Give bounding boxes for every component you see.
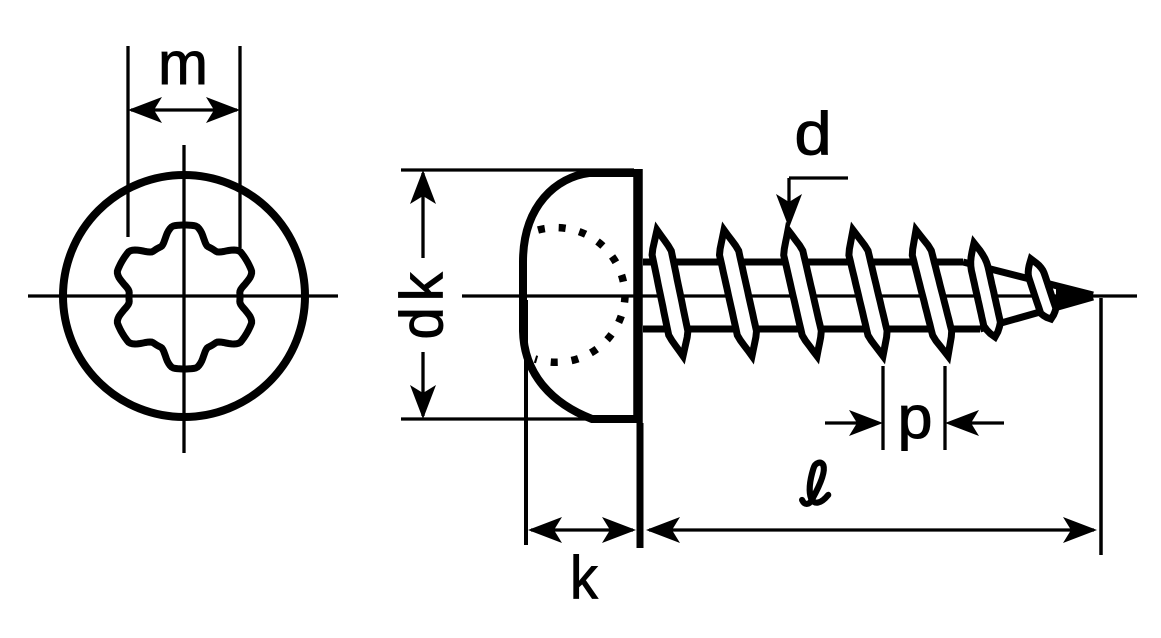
arrow m left [128,97,162,123]
extension line l right [1099,298,1103,555]
taper thread loop 1 [971,243,1001,337]
dimension line dk lower segment [421,352,424,416]
arrow l left [646,517,680,543]
head flat face [633,169,643,423]
svg-text:p: p [897,384,932,451]
label l (script ell) [802,463,828,504]
extension line p right [943,366,946,450]
wire: horizontal centerline of front view [28,294,338,297]
arrow dk down [410,385,436,419]
torx recess star [117,225,251,369]
dimension line dk upper segment [421,173,424,258]
arrow k right [602,517,636,543]
dimension tail p right [956,421,1004,424]
extension line m right [238,46,241,248]
dimension line l [649,528,1094,531]
taper top line [963,262,1093,295]
arrow m right [206,97,240,123]
wire: horizontal centerline of side view [462,294,1137,297]
dimension line k [531,528,633,531]
thread blade 2 [720,230,757,356]
extension line dk bottom [401,417,634,420]
arrow k left [528,517,562,543]
arrow dk up [410,170,436,204]
head side outline: pan head dome [523,173,638,419]
thread blade 4 [849,230,887,356]
wire: vertical centerline of front view [182,145,185,453]
dimension line m [131,108,237,111]
leader line d vertical [787,178,790,222]
arrow d down [776,194,802,228]
shank bottom line [643,326,980,333]
taper bottom line [980,297,1093,329]
arrow l right [1063,517,1097,543]
dimension tail p left [825,421,872,424]
arrow p left pointing right [849,410,883,436]
svg-text:d: d [794,100,831,167]
svg-text:dk: dk [387,266,455,339]
thread blade 1 [652,230,688,356]
arrow p right pointing left [945,410,979,436]
svg-text:m: m [158,30,208,97]
svg-text:k: k [570,545,599,611]
recess depth dashed arc [535,228,625,363]
extension line m left [126,46,129,237]
head outer circle [63,175,305,417]
extension line dk top [401,168,634,171]
extension line p left [881,366,884,450]
extension line k right (under head face) [637,423,644,548]
leader line d horizontal [789,176,848,179]
thread blade 5 [912,230,951,356]
shank top line [643,259,963,266]
taper thread loop 2 [1028,259,1056,319]
solid point cone [1056,283,1095,309]
extension line k left [524,300,528,545]
thread blade 3 [784,230,822,356]
